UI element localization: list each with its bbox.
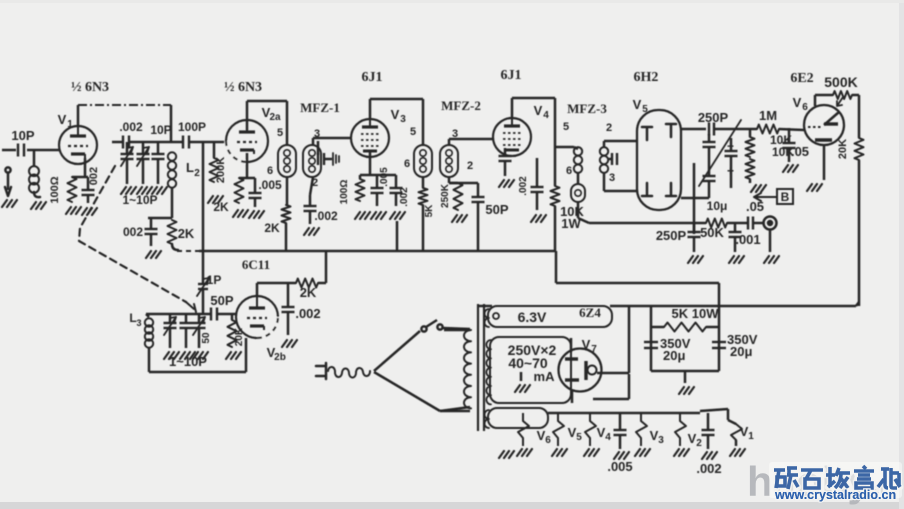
- trimmer cap 1 (tuning): [121, 142, 137, 194]
- wire B+ horizontal: [556, 282, 719, 285]
- svg-text:100P: 100P: [178, 120, 206, 134]
- svg-text:2: 2: [696, 438, 702, 449]
- svg-text:3: 3: [400, 114, 406, 125]
- svg-text:20μ: 20μ: [730, 344, 752, 359]
- ground extra (heater bus): [499, 451, 514, 458]
- resistor 5K 10W: [651, 306, 719, 332]
- svg-text:.005: .005: [607, 459, 632, 474]
- svg-text:10μ: 10μ: [707, 199, 728, 213]
- svg-text:V: V: [534, 103, 543, 118]
- svg-text:2K: 2K: [178, 226, 195, 241]
- gang dash-dot line (top): [78, 104, 171, 106]
- wire osc grid line: [146, 313, 236, 316]
- svg-text:1M: 1M: [759, 108, 777, 123]
- svg-text:V: V: [58, 112, 67, 127]
- trimmer cap osc A: [164, 314, 180, 359]
- trimmer cap 2 (tuning): [137, 142, 153, 194]
- resistor 2K (V2b plate): [296, 251, 326, 300]
- svg-text:3: 3: [609, 172, 615, 184]
- svg-text:500K: 500K: [824, 74, 857, 90]
- resistor 2K MFZ-1 feed: [264, 177, 290, 251]
- tube V6 6E2: [790, 71, 844, 145]
- svg-text:50K: 50K: [700, 225, 724, 240]
- heater V3b: [635, 413, 664, 456]
- wire right column: [858, 160, 861, 306]
- svg-text:2: 2: [606, 122, 612, 134]
- svg-text:6J1: 6J1: [362, 70, 383, 85]
- svg-text:2K: 2K: [300, 285, 317, 300]
- wire V4 grid: [449, 139, 493, 145]
- resistor 100 ohm (V3): [339, 175, 370, 219]
- heater V2b2: [674, 413, 702, 456]
- tube V2a half 6N3: [224, 80, 283, 162]
- capacitor .002 (V4): [518, 158, 546, 222]
- potentiometer 500K: [815, 74, 859, 106]
- svg-text:3: 3: [136, 318, 141, 328]
- mains plug: [316, 363, 370, 379]
- svg-text:.005: .005: [258, 178, 282, 192]
- output jack: [764, 217, 780, 264]
- svg-text:7: 7: [591, 344, 597, 355]
- tube V5 6H2: [633, 70, 681, 210]
- wire V5 cathode: [604, 173, 637, 191]
- svg-text:2K: 2K: [264, 221, 280, 235]
- svg-text:.005: .005: [379, 167, 390, 187]
- resistor 2K (V2a cathode): [213, 178, 248, 217]
- svg-text:20K: 20K: [837, 139, 849, 159]
- svg-text:5K 10W: 5K 10W: [672, 306, 720, 321]
- resistor 2K (osc feed): [168, 220, 195, 250]
- wire stub to rail (V3): [396, 221, 399, 251]
- wire HT top line: [479, 305, 856, 308]
- wire mains upper: [374, 331, 420, 371]
- svg-text:.002: .002: [119, 120, 143, 134]
- svg-text:200K: 200K: [215, 157, 227, 183]
- svg-text:½ 6N3: ½ 6N3: [71, 80, 109, 95]
- wire V3 grid: [313, 138, 351, 145]
- svg-text:3: 3: [658, 435, 664, 446]
- svg-text:1: 1: [67, 119, 73, 130]
- svg-text:6: 6: [404, 158, 410, 170]
- trimmer 1P: [197, 273, 221, 314]
- wire detector drop: [693, 163, 696, 234]
- capacitor 350V 20u (left): [644, 336, 691, 363]
- svg-text:20μ: 20μ: [663, 348, 685, 363]
- MFZ-3 tickler: [571, 173, 589, 223]
- svg-text:5K: 5K: [424, 204, 435, 218]
- svg-text:.002: .002: [518, 176, 529, 196]
- capacitor 10P shunt: [152, 142, 168, 194]
- wire V2a cathode: [239, 153, 255, 178]
- svg-text:250P: 250P: [656, 228, 687, 243]
- svg-text:.002: .002: [314, 209, 338, 223]
- capacitor .002 (MFZ-1 sec): [304, 177, 339, 235]
- watermark blue chinese: drawn glyph blocks: [774, 466, 900, 489]
- IF transformer MFZ-3: [566, 101, 615, 184]
- capacitor .002 (series): [119, 120, 143, 149]
- wire V3 cathode: [360, 151, 396, 175]
- svg-text:50P: 50P: [210, 293, 233, 308]
- label 1~10P: [122, 193, 157, 207]
- svg-text:L: L: [186, 160, 194, 175]
- svg-text:.002: .002: [399, 187, 410, 207]
- heater V6: [517, 413, 551, 456]
- svg-text:5: 5: [563, 121, 569, 133]
- svg-text:2: 2: [194, 168, 200, 179]
- capacitor 10P (input series): [11, 128, 34, 157]
- wire main signal line: [112, 141, 227, 144]
- trimmer cap osc B: [193, 314, 213, 359]
- resistor 20K: [837, 95, 864, 160]
- resistors 10K 10K: [746, 129, 795, 192]
- svg-text:2a: 2a: [269, 112, 281, 123]
- wire V5 bottom out: [681, 197, 709, 200]
- svg-text:1~10P: 1~10P: [169, 354, 207, 369]
- capacitor .002 (heater): [696, 413, 721, 476]
- capacitor 250P (coupling): [698, 110, 757, 136]
- svg-text:6J1: 6J1: [501, 68, 522, 83]
- svg-text:MFZ-3: MFZ-3: [567, 101, 607, 116]
- capacitor .001: [729, 223, 761, 263]
- svg-text:www.crystalradio.cn: www.crystalradio.cn: [774, 488, 896, 502]
- wire B+ vertical: [555, 251, 558, 283]
- svg-text:1: 1: [748, 431, 754, 442]
- capacitor V4 grid bypass: [499, 148, 515, 187]
- capacitor MFZ-3 tune: [608, 153, 617, 165]
- resistor 100 ohm (V1 cathode): [49, 176, 81, 214]
- svg-text:V: V: [582, 337, 591, 352]
- wire osc tank bottom: [149, 338, 246, 372]
- wire V2b plate: [257, 283, 296, 296]
- svg-text:100Ω: 100Ω: [339, 180, 350, 205]
- svg-text:2b: 2b: [274, 352, 286, 363]
- tube V2b half 6N3 oscillator: [236, 296, 286, 363]
- capacitor 50P (osc grid): [210, 293, 233, 321]
- heater V5b: [552, 413, 582, 456]
- svg-text:V: V: [391, 107, 400, 122]
- label 10P (shunt): [150, 123, 171, 137]
- winding bumps 6.3V: [485, 309, 490, 327]
- svg-text:4: 4: [605, 432, 611, 443]
- antenna input wire: [2, 149, 59, 152]
- capacitor 100P (series): [178, 120, 206, 149]
- svg-text:6C11: 6C11: [242, 257, 270, 272]
- wire V7 plates: [571, 338, 572, 403]
- winding bumps heater: [485, 410, 490, 428]
- capacitor .05 (V6 grid): [783, 128, 810, 172]
- svg-text:002: 002: [123, 225, 143, 239]
- resistor 1M: [757, 108, 804, 134]
- capacitor MFZ-1 bypass: [318, 141, 339, 165]
- IF transformer MFZ-1: [267, 100, 340, 189]
- svg-text:5: 5: [576, 432, 582, 443]
- wire V4 plate loop: [512, 98, 555, 147]
- B+ rail: [199, 250, 556, 253]
- svg-text:2K: 2K: [213, 200, 229, 214]
- capacitor .002 (osc plate): [123, 218, 161, 258]
- winding bumps HV: [486, 340, 491, 404]
- wire plate drop to signal line: [170, 105, 173, 142]
- resistor 5K (MFZ-2 feed): [419, 177, 436, 251]
- svg-text:½ 6N3: ½ 6N3: [224, 80, 262, 95]
- switch: [421, 320, 470, 332]
- inductor L2: [168, 152, 200, 218]
- inductor L3: [129, 311, 153, 372]
- wire MFZ-3 link: [555, 146, 574, 149]
- wire V2a plate loop: [247, 101, 287, 145]
- svg-text:5: 5: [642, 104, 648, 115]
- svg-text:6: 6: [566, 165, 572, 177]
- svg-text:6: 6: [267, 165, 273, 177]
- tube V4 6J1: [493, 68, 569, 156]
- transformer T1 core: [478, 304, 484, 431]
- svg-text:1P: 1P: [207, 273, 222, 287]
- svg-text:V: V: [793, 95, 802, 110]
- wire AF output line: [589, 222, 763, 225]
- B+ rail (left dashed end): [177, 250, 199, 252]
- resistor 200K (V2a grid): [208, 142, 227, 203]
- svg-text:1~10P: 1~10P: [122, 193, 157, 207]
- transformer primary: [440, 330, 471, 411]
- winding 6.3V: [488, 305, 612, 327]
- svg-text:.002: .002: [295, 306, 320, 321]
- capacitor .002 (V1 cathode bypass): [82, 167, 101, 215]
- svg-text:.001: .001: [735, 232, 760, 247]
- label 6C11: [242, 257, 270, 272]
- filter box: [651, 283, 719, 394]
- capacitor 250P (AF): [656, 223, 703, 263]
- svg-text:B: B: [781, 190, 790, 204]
- svg-text:6: 6: [545, 435, 551, 446]
- svg-text:4: 4: [543, 110, 549, 121]
- svg-text:250P: 250P: [698, 110, 729, 125]
- svg-text:6: 6: [802, 102, 808, 113]
- wire V3 plate loop: [370, 99, 423, 145]
- wire right column bottom: [856, 302, 859, 306]
- svg-text:10P: 10P: [11, 128, 34, 143]
- tube V7 6Z4 rectifier: [559, 337, 602, 392]
- heater V4b: [584, 413, 611, 456]
- wire V1 cathode: [72, 158, 88, 177]
- resistor 50K (AF): [700, 199, 727, 240]
- svg-text:V: V: [633, 97, 642, 112]
- wire V5 grid: [604, 141, 637, 147]
- inductor L1 antenna coil: [29, 150, 46, 209]
- svg-text:.05: .05: [791, 144, 809, 159]
- wire V5 plate out: [681, 128, 706, 131]
- label 1~10P (osc): [169, 354, 207, 369]
- capacitor .005 (heater): [607, 413, 632, 474]
- B+ marker: [754, 189, 793, 204]
- svg-text:mA: mA: [534, 369, 556, 384]
- svg-text:+: +: [727, 164, 734, 178]
- antenna terminal: [2, 167, 17, 207]
- svg-text:.05: .05: [746, 199, 764, 214]
- svg-text:MFZ-1: MFZ-1: [300, 100, 340, 115]
- heater V1b: [728, 420, 754, 456]
- wire V6 cathode: [807, 145, 824, 191]
- tube V3 6J1: [351, 70, 416, 157]
- svg-text:250K: 250K: [440, 183, 451, 208]
- resistor 10K 1W: [551, 147, 585, 251]
- capacitor .002 (V3): [390, 175, 411, 219]
- svg-text:6E2: 6E2: [790, 71, 813, 86]
- svg-text:002: 002: [88, 167, 100, 185]
- capacitor 50P (AVC): [449, 183, 509, 251]
- wire V1 plate stem: [77, 105, 80, 126]
- resistor 20K (osc): [226, 314, 245, 359]
- svg-text:50P: 50P: [485, 202, 508, 217]
- svg-text:5: 5: [277, 127, 283, 139]
- node L2 bottom: [148, 217, 172, 220]
- svg-text:50: 50: [201, 332, 212, 344]
- svg-text:.002: .002: [696, 461, 721, 476]
- svg-text:6Z4: 6Z4: [579, 305, 601, 320]
- capacitor osc pad: [180, 314, 196, 359]
- wire V7 cathode out: [597, 306, 629, 373]
- capacitor .005 (V2a cathode): [249, 178, 283, 218]
- svg-text:2: 2: [467, 160, 473, 172]
- winding heaters: [488, 408, 728, 428]
- gang dashed line: [79, 166, 196, 312]
- svg-text:MFZ-2: MFZ-2: [441, 98, 481, 113]
- resistor 250K: [440, 177, 467, 222]
- wire V7 heater: [593, 374, 629, 399]
- capacitor .005 (V3): [371, 167, 391, 219]
- capacitor stack (det filter): [699, 120, 741, 198]
- capacitor .05 (AF out): [746, 199, 764, 230]
- capacitor .002 (V2b plate): [282, 283, 321, 347]
- winding 250Vx2: [490, 337, 571, 403]
- wire oscillator grid drop: [202, 142, 205, 283]
- tube V1 half 6N3: [58, 80, 109, 164]
- svg-text:6H2: 6H2: [634, 70, 659, 85]
- svg-text:100Ω: 100Ω: [49, 176, 61, 203]
- watermark white backdrop: [769, 462, 902, 498]
- capacitor 350V 20u (right): [712, 332, 758, 359]
- svg-text:5: 5: [410, 126, 416, 138]
- svg-text:10P: 10P: [150, 123, 171, 137]
- svg-text:6.3V: 6.3V: [518, 309, 547, 325]
- IF transformer MFZ-2: [404, 98, 481, 177]
- wire mains lower: [374, 372, 470, 411]
